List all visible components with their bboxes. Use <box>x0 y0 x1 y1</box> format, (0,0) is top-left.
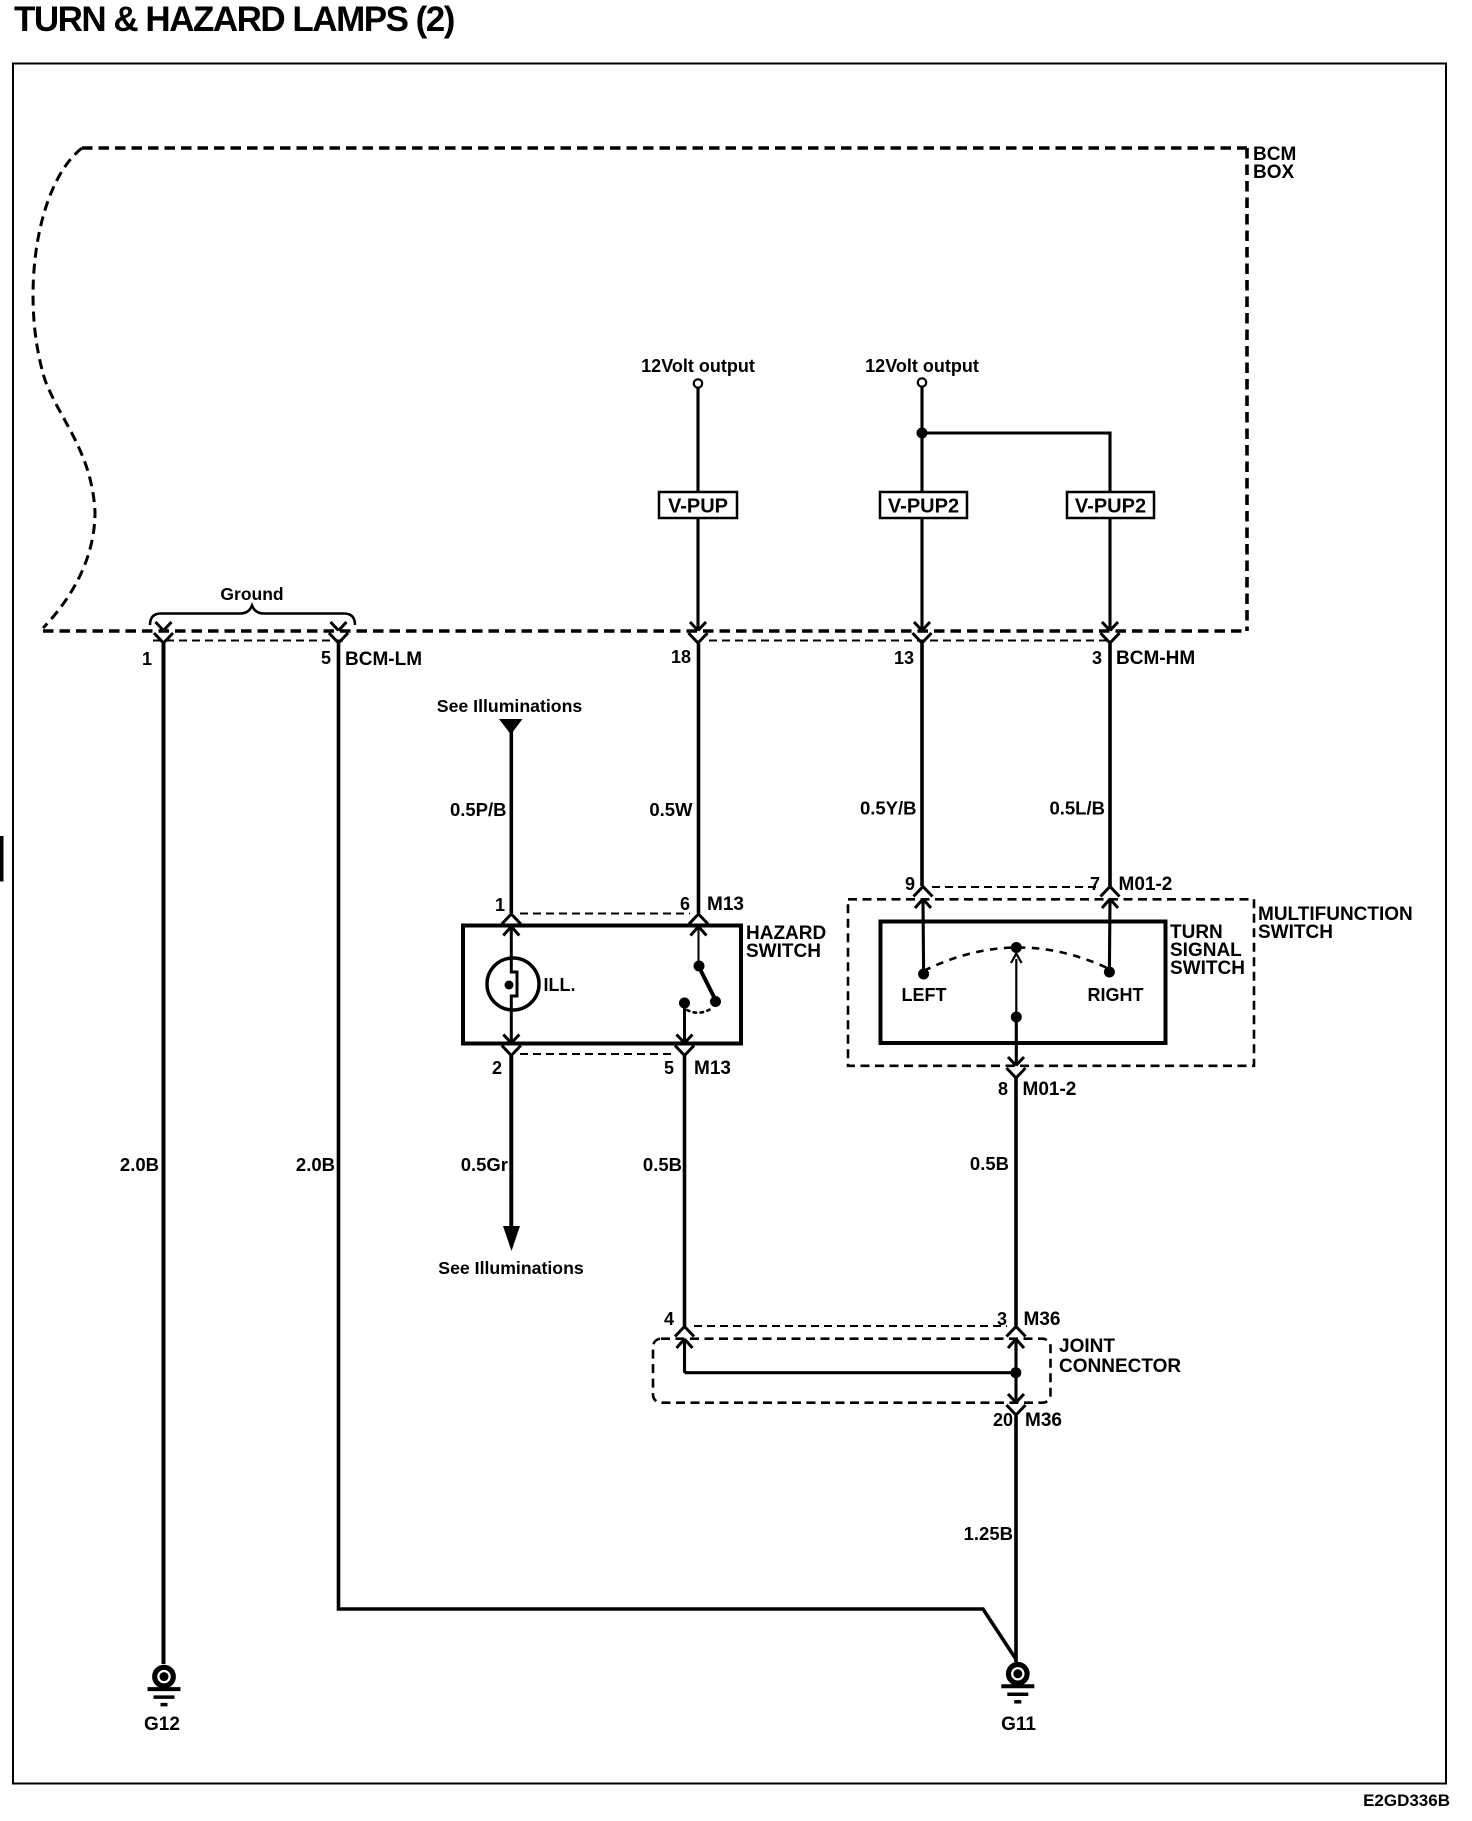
G12 label <box>144 1714 180 1735</box>
svg-text:BCM-LM: BCM-LM <box>345 649 422 670</box>
svg-text:13: 13 <box>894 648 914 668</box>
RIGHT contact node <box>1104 967 1115 978</box>
wire label 0.5L/B <box>1049 798 1105 819</box>
wire pin7 into RIGHT contact <box>1108 900 1112 971</box>
M13 connector dashed line bottom <box>520 1053 676 1055</box>
svg-text:M36: M36 <box>1024 1309 1061 1330</box>
wire lower node to pin 8 <box>1015 1017 1018 1065</box>
hazard switch box <box>463 926 741 1044</box>
svg-text:1: 1 <box>495 895 505 915</box>
junction node on 12V-2 <box>917 428 928 439</box>
svg-text:0.5B: 0.5B <box>643 1154 682 1175</box>
svg-text:M13: M13 <box>694 1058 731 1079</box>
svg-text:SWITCH: SWITCH <box>1258 922 1333 943</box>
joint connector junction node <box>1010 1367 1021 1378</box>
12Volt output terminal 1 <box>641 356 755 388</box>
LEFT contact label <box>902 985 947 1005</box>
wire junction to pin 20 <box>1014 1373 1017 1403</box>
svg-text:20: 20 <box>993 1410 1013 1430</box>
svg-text:M01-2: M01-2 <box>1023 1079 1077 1100</box>
svg-text:5: 5 <box>321 648 331 668</box>
svg-text:2: 2 <box>492 1058 502 1078</box>
svg-text:G11: G11 <box>1001 1714 1036 1735</box>
svg-text:SWITCH: SWITCH <box>746 941 821 962</box>
V-PUP box <box>659 492 737 518</box>
BCM-HM connector dashed outline <box>709 640 1113 642</box>
M13 connector dashed line top <box>520 913 690 915</box>
multifunction switch dashed box <box>848 899 1254 1066</box>
G11 label <box>1001 1714 1036 1735</box>
wire label 0.5Y/B <box>860 798 917 819</box>
hazard switch connector pin 5 <box>675 1035 694 1056</box>
connector pin 1 BCM-LM <box>154 622 173 643</box>
connector pin 13 <box>913 622 932 643</box>
wire V-PUP to pin 18 <box>696 518 699 630</box>
svg-text:M13: M13 <box>707 894 744 915</box>
svg-text:See Illuminations: See Illuminations <box>438 1258 584 1278</box>
hazard switch connector pin 2 <box>502 1035 521 1056</box>
wire joint connector horizontal <box>685 1371 1016 1374</box>
wire pin3 down to junction <box>1014 1339 1017 1373</box>
svg-text:18: 18 <box>671 647 691 667</box>
selector arm with arrow <box>1011 954 1022 1016</box>
svg-text:V-PUP2: V-PUP2 <box>1075 496 1146 518</box>
svg-text:3: 3 <box>1092 648 1102 668</box>
M01-2 connector pin 9 <box>914 887 933 909</box>
wire pin9 into LEFT contact <box>921 900 925 973</box>
svg-text:5: 5 <box>664 1058 674 1078</box>
svg-text:12Volt output: 12Volt output <box>865 356 979 376</box>
joint connector pin 3 <box>1007 1327 1026 1349</box>
See Illuminations top note <box>437 696 583 735</box>
svg-text:M36: M36 <box>1025 1410 1062 1431</box>
M01-2 pin labels bottom <box>998 1079 1008 1099</box>
ground G11 <box>1001 1665 1034 1702</box>
wire label 2.0B right <box>296 1154 335 1175</box>
svg-text:12Volt output: 12Volt output <box>641 356 755 376</box>
svg-text:LEFT: LEFT <box>902 985 947 1005</box>
svg-text:2.0B: 2.0B <box>296 1154 335 1175</box>
wire label 0.5B left <box>643 1154 682 1175</box>
selector top node <box>1011 942 1022 953</box>
illumination lamp ILL <box>487 927 539 1044</box>
svg-text:7: 7 <box>1090 874 1100 894</box>
MULTIFUNCTION SWITCH label <box>1258 904 1413 943</box>
LEFT contact node <box>918 969 929 980</box>
hazard pin labels top <box>495 895 505 915</box>
svg-text:8: 8 <box>998 1079 1008 1099</box>
hazard switch contacts <box>679 927 721 1044</box>
wire 0.5P/B <box>509 731 513 913</box>
binder tick mark on left edge <box>0 836 4 882</box>
svg-text:2.0B: 2.0B <box>120 1154 159 1175</box>
wire 12V-2 down <box>920 387 923 492</box>
svg-text:1: 1 <box>142 649 152 669</box>
wire 0.5W <box>697 644 701 914</box>
12Volt output terminal 2 <box>865 356 979 387</box>
svg-text:0.5Gr: 0.5Gr <box>461 1154 508 1175</box>
wire label 0.5P/B <box>450 799 507 820</box>
svg-text:See Illuminations: See Illuminations <box>437 696 583 716</box>
joint connector dashed box <box>653 1339 1051 1403</box>
hazard switch connector pin 6 <box>689 914 708 936</box>
wire V-PUP2 left to pin 13 <box>920 518 923 630</box>
wire 1.25B pin 20 to G11 <box>1014 1416 1018 1663</box>
wire 0.5B turn signal to joint connector pin 3 <box>1014 1079 1018 1327</box>
svg-text:0.5B: 0.5B <box>970 1153 1009 1174</box>
wire label 0.5W <box>649 799 693 820</box>
HAZARD SWITCH label <box>746 923 826 962</box>
M01-2 connector dashed outline <box>932 886 1101 888</box>
svg-text:0.5W: 0.5W <box>649 799 693 820</box>
wire 2.0B pin1 to G12 <box>162 644 166 1665</box>
See Illuminations bottom note <box>438 1258 584 1278</box>
pin labels BCM row <box>142 649 152 669</box>
wire pin4 down inside joint connector <box>683 1339 686 1373</box>
M36 connector dashed line <box>694 1325 1007 1327</box>
connector pin 18 <box>689 622 708 643</box>
BCM-LM connector dashed outline <box>153 640 348 642</box>
TURN SIGNAL SWITCH label <box>1170 922 1245 979</box>
svg-text:6: 6 <box>680 894 690 914</box>
joint connector pin labels top <box>664 1309 674 1329</box>
M01-2 connector pin 8 <box>1007 1057 1026 1078</box>
ILL label <box>544 975 576 995</box>
connector pin 5 BCM-LM <box>329 622 348 643</box>
svg-text:CONNECTOR: CONNECTOR <box>1059 1356 1181 1377</box>
selector lower node <box>1011 1012 1022 1023</box>
ground G12 <box>148 1667 181 1704</box>
wire 0.5B hazard pin5 to joint connector pin 4 <box>683 1056 687 1326</box>
wire label 1.25B <box>964 1523 1013 1544</box>
turn signal switch box <box>881 922 1166 1044</box>
svg-text:1.25B: 1.25B <box>964 1523 1013 1544</box>
Ground label and brace <box>150 584 355 625</box>
hazard switch connector pin 1 <box>502 914 521 936</box>
svg-text:TURN & HAZARD LAMPS (2): TURN & HAZARD LAMPS (2) <box>14 0 454 39</box>
svg-text:E2GD336B: E2GD336B <box>1363 1791 1450 1810</box>
joint connector pin labels bottom <box>993 1410 1013 1430</box>
diagram code E2GD336B <box>1363 1791 1450 1810</box>
wire 0.5Y/B <box>920 644 924 887</box>
svg-text:G12: G12 <box>144 1714 180 1735</box>
svg-text:4: 4 <box>664 1309 674 1329</box>
M01-2 connector pin 7 <box>1101 887 1120 909</box>
svg-text:V-PUP2: V-PUP2 <box>888 496 959 518</box>
wire 0.5L/B <box>1108 644 1112 887</box>
V-PUP2 box right <box>1067 492 1154 518</box>
dashed selector arc <box>924 947 1110 971</box>
svg-text:M01-2: M01-2 <box>1119 874 1173 895</box>
wire label 2.0B left <box>120 1154 159 1175</box>
wire label 0.5B right <box>970 1153 1009 1174</box>
page title <box>14 0 454 39</box>
svg-text:3: 3 <box>997 1309 1007 1329</box>
svg-text:V-PUP: V-PUP <box>668 496 728 518</box>
svg-text:9: 9 <box>905 874 915 894</box>
BCM BOX label <box>1253 144 1296 183</box>
JOINT CONNECTOR label <box>1059 1336 1181 1377</box>
V-PUP2 box left <box>880 492 967 518</box>
M01-2 pin labels top <box>905 874 915 894</box>
svg-text:BCM-HM: BCM-HM <box>1116 648 1195 669</box>
joint connector pin 20 <box>1007 1394 1026 1415</box>
wire 0.5Gr with arrow to See Illuminations <box>503 1056 520 1251</box>
wire V-PUP2 right to pin 3 <box>1108 518 1111 630</box>
BCM BOX dashed outline <box>33 148 1247 631</box>
svg-text:RIGHT: RIGHT <box>1088 985 1144 1005</box>
hazard pin labels bottom <box>492 1058 502 1078</box>
wire label 0.5Gr <box>461 1154 508 1175</box>
svg-text:JOINT: JOINT <box>1059 1336 1115 1357</box>
svg-text:0.5Y/B: 0.5Y/B <box>860 798 917 819</box>
svg-text:ILL.: ILL. <box>544 975 576 995</box>
RIGHT contact label <box>1088 985 1144 1005</box>
svg-text:BOX: BOX <box>1253 162 1295 183</box>
svg-text:SWITCH: SWITCH <box>1170 958 1245 979</box>
svg-text:0.5P/B: 0.5P/B <box>450 799 507 820</box>
wire branch junction to V-PUP2 right <box>922 433 1110 492</box>
svg-text:0.5L/B: 0.5L/B <box>1049 798 1105 819</box>
wire 2.0B pin5 elbow to G11 <box>339 644 1017 1661</box>
wire 12V-1 to V-PUP <box>696 388 699 492</box>
svg-text:Ground: Ground <box>220 584 283 604</box>
connector pin 3 <box>1101 622 1120 643</box>
joint connector pin 4 <box>675 1327 694 1349</box>
